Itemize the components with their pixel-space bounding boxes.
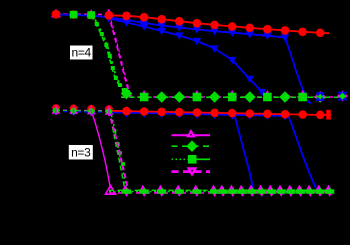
n=4 first point red circle on top — [52, 10, 61, 19]
bottom band marker clusters — [121, 185, 131, 197]
n=4 blue line D-small with early divergence — [109, 19, 268, 99]
n=4 red line — [109, 15, 330, 33]
n=4 plateau magenta dashed line — [121, 96, 346, 98]
n=3 green drop dotted — [111, 111, 129, 191]
legend tri hole 2 — [191, 170, 193, 172]
legend row 2: green dashed + diamond — [172, 145, 211, 147]
n=4 magenta drop second dashed — [110, 15, 132, 96]
n=3 green drop small squares — [113, 129, 117, 133]
svg-text:n=3: n=3 — [71, 146, 91, 160]
n=3 green dashed line start — [56, 110, 109, 113]
n=4 first point magenta tips — [51, 9, 61, 18]
n=4 plateau green center at 320 — [317, 94, 323, 100]
n=3 magenta thick dashed drop — [109, 111, 128, 190]
legend tri hole — [190, 134, 192, 136]
n=4 plateau magenta tips — [140, 90, 149, 98]
n=4 blue line D-small markers — [105, 15, 113, 22]
n=4 plateau blue triangle near x=320 — [315, 91, 325, 101]
n=4 plateau end cluster — [337, 91, 348, 102]
n=4 plateau magenta small diamonds — [123, 93, 129, 99]
n=4 plateau green squares — [140, 93, 149, 102]
n=4 plateau green dashed line — [121, 96, 346, 98]
n=4 green dashed segment along top plateau — [56, 14, 91, 17]
n=3 magenta solid drop (up triangle series) — [91, 111, 110, 189]
n=3 blue drop 2 — [289, 116, 318, 192]
n=4 red circle markers — [52, 10, 61, 19]
n=4 blue D-large markers — [87, 12, 95, 19]
n=4 blue line D-large — [56, 14, 285, 37]
n=3 blue line 2 — [232, 115, 287, 116]
n=4 green drop dashed (diamond series) — [91, 15, 126, 93]
n=4 plateau green diamonds — [121, 88, 133, 100]
n=4 plateau blue up tick at 320 — [316, 93, 325, 101]
legend row 1: magenta solid + up triangle — [172, 134, 211, 136]
n=4 blue line D-large steep drop — [285, 38, 311, 104]
legend row 4: magenta thick dashed + down triangle — [172, 170, 211, 173]
n=4 label box — [70, 46, 93, 60]
n=4 green squares on top of points 2,3 — [70, 11, 78, 19]
n=3 start clusters — [52, 104, 61, 116]
n=3 red line — [109, 111, 331, 115]
n=3 magenta open triangle landing — [106, 186, 116, 195]
n=3 blue drop 1 — [235, 115, 254, 189]
bottom band green dotted line — [109, 191, 329, 193]
n=4 magenta drop dashed (triangle series) — [109, 15, 131, 96]
n=3 green drop dashed — [109, 111, 127, 191]
n=4 green drop dotted (square series) — [93, 15, 128, 93]
legend row 3: green dash-dot + square — [172, 158, 190, 160]
bottom band green dashed line — [109, 189, 329, 191]
n=3 red circles — [122, 107, 131, 116]
n=4 green drop small square markers — [95, 22, 99, 26]
bottom band magenta dashed line — [109, 192, 329, 194]
n=3 label box — [69, 145, 93, 160]
n=3 blue triangles under red — [123, 111, 131, 118]
n=4 magenta dashed segment along top plateau — [56, 13, 109, 15]
n=3 red line end cap — [326, 110, 331, 120]
n=3 magenta dashed line start — [56, 109, 109, 112]
svg-text:n=4: n=4 — [71, 46, 91, 60]
n=3 blue line — [56, 111, 109, 114]
